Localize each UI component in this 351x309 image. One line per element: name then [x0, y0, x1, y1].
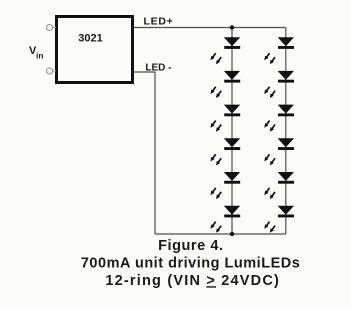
input terminal top [47, 25, 57, 31]
input terminal bottom [47, 68, 57, 74]
junction bottom node [230, 232, 234, 236]
wire bottom return rail [155, 233, 286, 235]
svg-text:700mA unit driving LumiLEDs: 700mA unit driving LumiLEDs [81, 256, 300, 272]
LED D3 [211, 105, 241, 132]
LED D7 [264, 37, 294, 64]
LED D12 [264, 206, 294, 233]
wire LED+ rail [134, 27, 286, 29]
LED D6 [211, 206, 241, 233]
LED D10 [264, 138, 294, 165]
LED D2 [211, 71, 241, 98]
label Vin [29, 45, 44, 61]
LED D1 [211, 37, 241, 64]
LED D9 [264, 105, 294, 132]
svg-text:LED+: LED+ [144, 16, 174, 28]
wire LED column 1 [231, 28, 233, 235]
junction top node [230, 25, 234, 29]
driver box 3021 [57, 17, 133, 83]
wire LED column 2 [285, 28, 287, 235]
LED D5 [211, 172, 241, 199]
LED D8 [264, 71, 294, 98]
svg-text:3021: 3021 [78, 33, 102, 45]
LED D11 [264, 172, 294, 199]
LED D4 [211, 138, 241, 165]
wire LED- from box [134, 72, 155, 234]
svg-text:in: in [36, 51, 44, 61]
svg-text:12-ring (VIN > 24VDC): 12-ring (VIN > 24VDC) [105, 273, 280, 289]
svg-text:Figure 4.: Figure 4. [158, 238, 223, 254]
